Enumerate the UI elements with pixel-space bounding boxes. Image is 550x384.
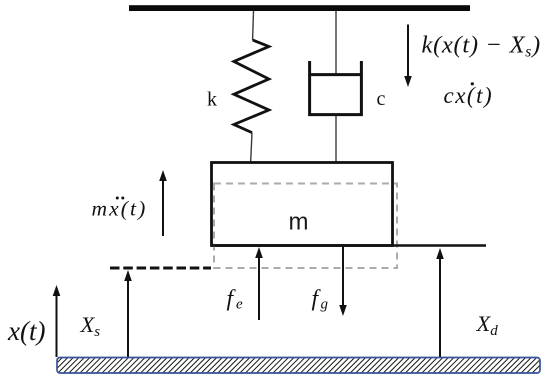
svg-text:c: c [377, 88, 386, 110]
wire: damper to mass [335, 116, 337, 163]
svg-text:Xd: Xd [476, 311, 499, 339]
force arrow f_g down [342, 246, 344, 305]
wire: bar to damper piston [335, 11, 337, 74]
displacement arrow x(t) up [56, 296, 58, 357]
svg-text:Xs: Xs [80, 312, 101, 340]
svg-text:m: m [289, 209, 309, 236]
svg-text:cx(t): cx(t) [444, 83, 494, 108]
displacement arrow X_s up [127, 281, 129, 357]
svg-text:fg: fg [312, 286, 329, 313]
dashed black datum line [110, 267, 211, 270]
svg-text:mx(t): mx(t) [92, 196, 148, 220]
damper c cylinder [310, 61, 362, 115]
damper piston plate [309, 73, 363, 76]
svg-text:x(t): x(t) [7, 316, 45, 346]
ground hatched bar [57, 358, 540, 374]
fixed support bar [129, 5, 470, 11]
wire: bar to spring [252, 11, 255, 40]
force arrow k(x(t)-Xs) down [407, 25, 409, 78]
wire: spring to mass [251, 133, 252, 163]
mass bottom extension line [212, 244, 487, 246]
mass m box [212, 163, 393, 246]
displacement arrow X_d up [439, 259, 441, 357]
svg-text:fe: fe [227, 286, 244, 313]
spring k [234, 40, 269, 133]
inertia arrow m x-ddot up [162, 181, 164, 236]
force arrow f_e up [258, 258, 260, 320]
svg-text:k: k [207, 89, 217, 111]
dashed gray box [214, 184, 397, 269]
svg-text:k(x(t) − Xs): k(x(t) − Xs) [422, 31, 541, 60]
